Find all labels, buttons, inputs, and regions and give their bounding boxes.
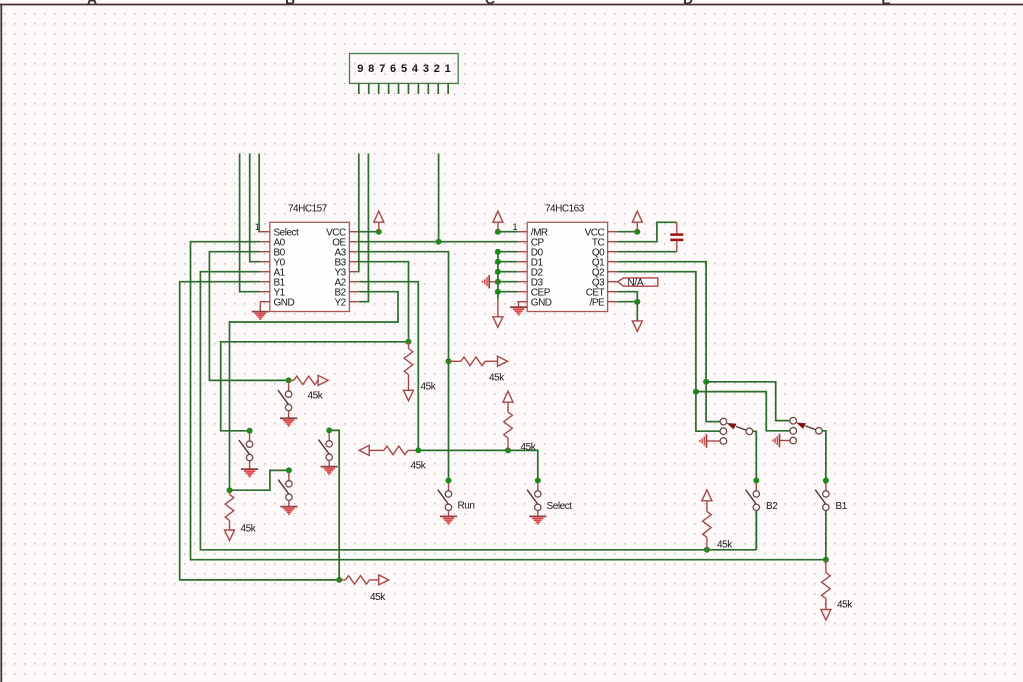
U2 right pin stubs (608, 232, 618, 302)
svg-text:E: E (881, 0, 890, 7)
junction U2 VCC (634, 229, 640, 235)
wire net B1 to switch (329, 430, 339, 580)
svg-text:C: C (485, 0, 495, 7)
svg-text:8: 8 (368, 63, 374, 75)
wire net B0 (209, 252, 288, 381)
svg-text:45k: 45k (521, 442, 537, 453)
switch on net B3 (239, 434, 253, 461)
connector SV1 pins 9..1 (357, 63, 450, 94)
junction B0 (286, 377, 292, 383)
VCC arrow symbol at U2 /MR (493, 211, 503, 232)
junction D3 (495, 279, 501, 285)
ground below Select switch (529, 511, 546, 524)
junction at switch B1 top (823, 478, 829, 484)
sideways ground at S1 (700, 434, 720, 447)
op-amp-style IC U1 74HC157 body (270, 204, 350, 312)
svg-text:45k: 45k (717, 540, 733, 551)
U1 right pin stubs (349, 232, 359, 302)
svg-text:74HC157: 74HC157 (288, 204, 328, 215)
wire net Y2 vertical from top (359, 154, 368, 302)
svg-text:Run: Run (458, 501, 475, 512)
resistor 45k pullup on net A1 to VCC arrow (702, 490, 733, 551)
ground below net B3 switch (241, 461, 258, 477)
switch B2 (746, 483, 779, 512)
sideways ground at D3 (483, 275, 498, 288)
junction B1 at switch (326, 427, 332, 433)
svg-text:Select: Select (547, 501, 573, 512)
wire U1 VCC to supply (359, 231, 379, 233)
svg-text:45k: 45k (241, 524, 257, 535)
switch B1 (815, 483, 848, 512)
resistor 45k on net B1 with right arrow (339, 575, 389, 603)
wire S1 common to B2 switch (753, 431, 757, 480)
wire net A2 (359, 282, 538, 481)
svg-text:45k: 45k (370, 592, 386, 603)
sideways ground at S2 (773, 434, 790, 447)
resistor 45k pulldown on net A0 (821, 560, 853, 620)
capacitor C1 (670, 222, 683, 251)
wire net B3 (221, 262, 409, 431)
svg-text:7: 7 (379, 63, 385, 75)
svg-text:45k: 45k (411, 461, 427, 472)
svg-text:2: 2 (434, 63, 440, 75)
wire net Y0 vertical from top (250, 154, 261, 262)
junction B2 at switch (286, 467, 292, 473)
wire switch B2 bottom (755, 511, 757, 550)
junction B2 at pulldown (227, 487, 233, 493)
resistor 45k pullup on net A2 to VCC arrow (503, 391, 537, 453)
junction A2 at Select switch (535, 478, 541, 484)
svg-text:3: 3 (423, 63, 429, 75)
junction U1 VCC (376, 229, 382, 235)
ground below net B1 switch (321, 460, 338, 474)
junction CEP (495, 289, 501, 295)
junction A0 at B1 bottom (823, 557, 829, 563)
wire net CET to /PE (618, 292, 638, 302)
wire net Select vertical from top (259, 154, 260, 232)
svg-text:1: 1 (445, 63, 451, 75)
wire U2 VCC to supply (618, 231, 638, 233)
svg-text:GND: GND (274, 297, 295, 308)
ground below net B0 switch (280, 411, 297, 426)
ground at U1 GND pin (252, 302, 269, 320)
VCC arrow symbol at U2 VCC (632, 211, 642, 232)
ground below net B2 switch (280, 500, 297, 514)
wire net A3 (359, 252, 448, 481)
wire net Y3 vertical from top (358, 154, 360, 272)
down arrow below CEP chain (493, 292, 503, 328)
wire net A0 (191, 242, 826, 560)
junction A1 at pullup (704, 547, 710, 553)
U2 left pin stubs (517, 232, 527, 302)
resistor 45k on net A3 with right arrow (449, 356, 508, 383)
svg-text:5: 5 (401, 63, 407, 75)
U1 pin names (274, 227, 347, 308)
resistor 45k pulldown on net B2 (225, 490, 257, 540)
resistor 45k on net B0 with right arrow (289, 375, 329, 401)
wire net A1 (200, 272, 756, 550)
wire net /PE (618, 301, 638, 303)
connector SV1 body (350, 54, 459, 84)
svg-text:45k: 45k (837, 600, 853, 611)
resistor 45k pulldown on net B3 (404, 342, 437, 401)
resistor 45k on net A2 with left arrow (359, 445, 427, 471)
SPDT switch S1 contacts (720, 418, 753, 444)
switch on net B0 (278, 383, 292, 411)
wire net CLK vertical from top (438, 154, 440, 242)
net flag N/A at Q3 (618, 278, 658, 289)
junction B3 at pulldown (406, 339, 412, 345)
U1 left pin stubs (260, 232, 270, 302)
switch Select (527, 483, 572, 512)
junction OE/CP with vertical (436, 239, 442, 245)
VCC arrow symbol at U1 (374, 211, 384, 232)
SPDT switch S2 contacts (790, 417, 822, 443)
junction A2 at pullup (505, 447, 511, 453)
svg-text:A: A (87, 0, 97, 7)
wire net Q2 branch to right switch (696, 392, 790, 431)
svg-text:B2: B2 (766, 501, 778, 512)
junction D1 (495, 259, 501, 265)
switch on net B1 (319, 433, 333, 460)
down arrow below /PE (632, 302, 642, 332)
wire net Q0 to capacitor (618, 251, 677, 253)
wire net B2 of U1 (230, 292, 399, 491)
svg-text:74HC163: 74HC163 (545, 204, 585, 215)
IC U2 74HC163 body (527, 204, 607, 312)
svg-text:1: 1 (513, 222, 518, 232)
svg-text:N/A: N/A (628, 278, 644, 289)
junction B3 at switch (247, 428, 253, 434)
junction /PE (634, 299, 640, 305)
wire switch B1 bottom (825, 511, 827, 560)
junction Q2 (693, 389, 699, 395)
svg-text:45k: 45k (421, 382, 437, 393)
switch Run (438, 483, 475, 511)
svg-text:D: D (683, 0, 693, 7)
svg-text:B: B (285, 0, 295, 7)
wire net D0-D3/CEP chain (498, 252, 517, 292)
wire S2 common to B1 switch (822, 431, 826, 481)
wire net Q1 (618, 262, 721, 422)
junction A2 left (415, 447, 421, 453)
U2 pin names (531, 227, 605, 308)
ground at U2 GND pin (510, 302, 527, 315)
ground below Run switch (440, 511, 457, 524)
svg-text:B1: B1 (836, 501, 848, 512)
junction D2 (495, 269, 501, 275)
wire net Q2 (618, 272, 721, 432)
junction D0 (495, 249, 501, 255)
wire net Q1 branch to right switch (706, 382, 790, 421)
wire net OE/CP (U1.OE to U2.CP) (359, 241, 517, 243)
svg-text:Y2: Y2 (334, 297, 346, 308)
junction U2 /MR (495, 229, 501, 235)
svg-text:9: 9 (357, 63, 363, 75)
junction at switch Run top (446, 478, 452, 484)
svg-text:45k: 45k (489, 373, 505, 384)
junction A3 at resistor tap (446, 358, 452, 364)
svg-text:GND: GND (531, 297, 552, 308)
svg-text:6: 6 (390, 63, 396, 75)
wire net B1 of U1 (180, 282, 340, 580)
wire net Y1 vertical from top (240, 154, 261, 292)
junction Q1 (703, 379, 709, 385)
switch on net B2 (278, 473, 292, 500)
svg-text:45k: 45k (308, 391, 324, 402)
svg-text:/PE: /PE (590, 297, 605, 308)
wire net TC to capacitor (618, 222, 677, 241)
junction B1 at resistor (336, 577, 342, 583)
junction at switch B2 top (753, 478, 759, 484)
wire U2 /MR to supply (498, 231, 517, 233)
